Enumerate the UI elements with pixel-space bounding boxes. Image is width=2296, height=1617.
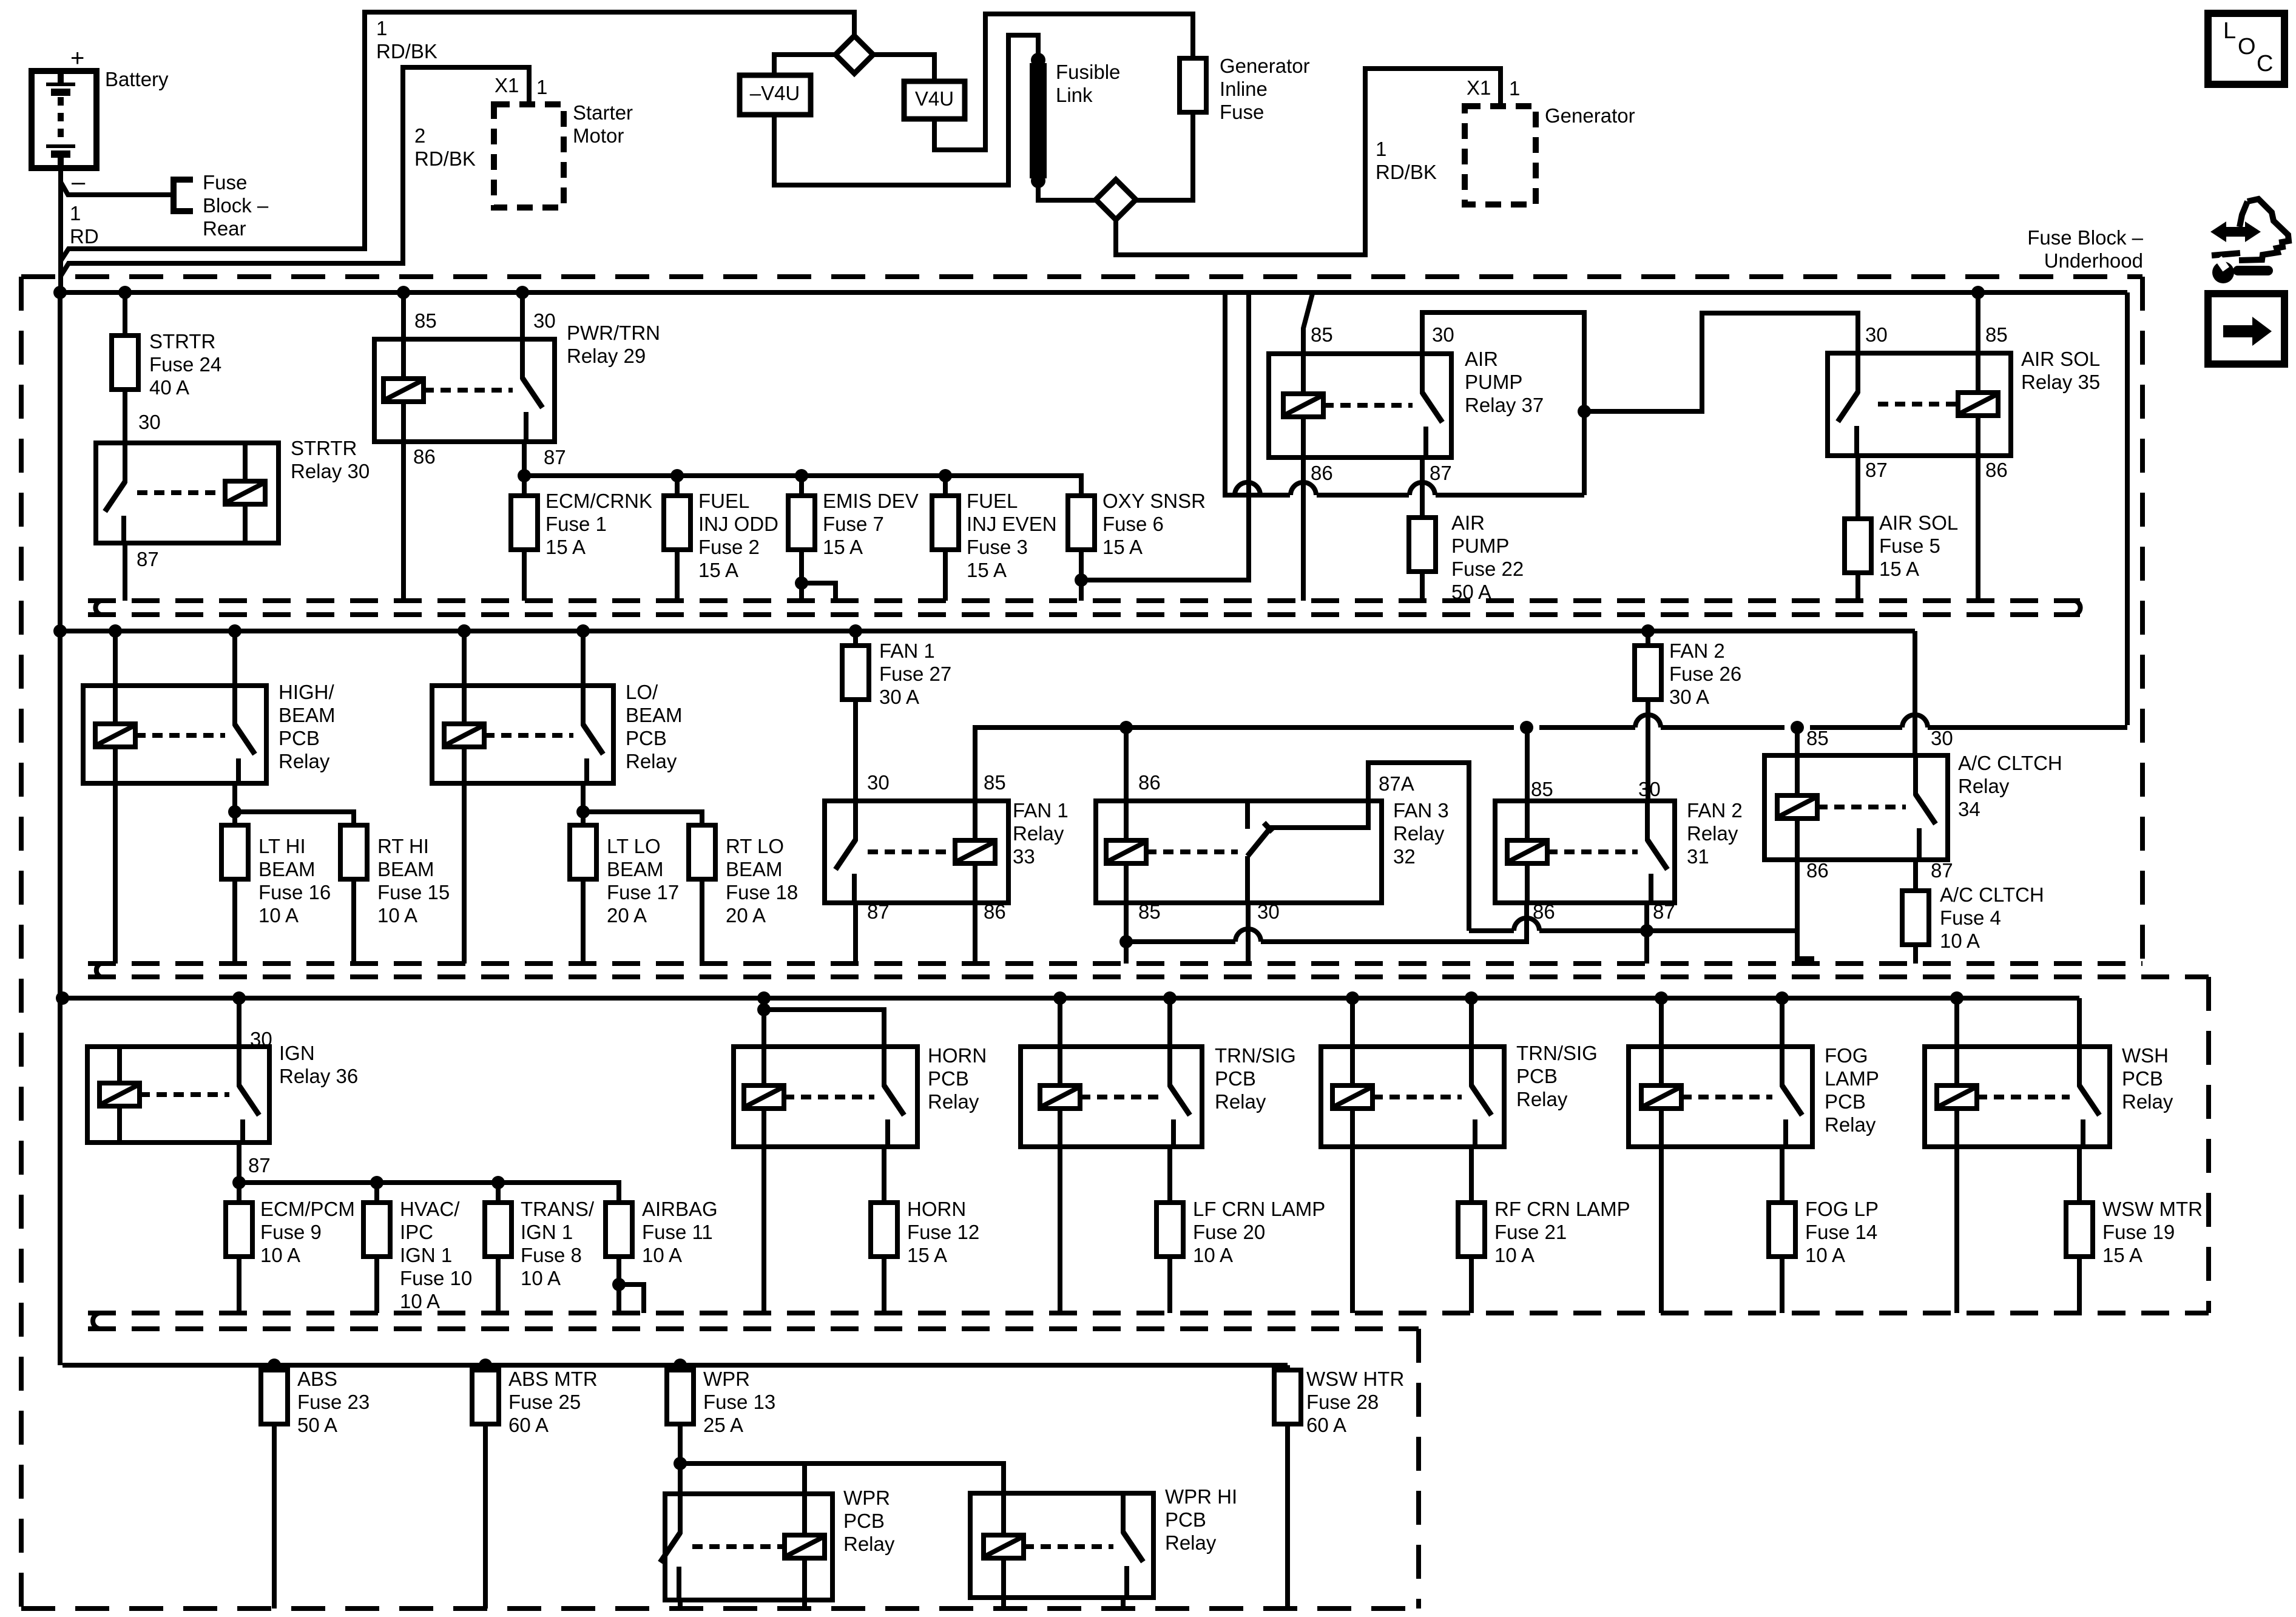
label relay37 pin86 (1311, 462, 1333, 484)
fuse F17 LT LO BEAM (570, 825, 596, 879)
relay R32 dashed link (1146, 849, 1238, 854)
wire fuse11 out jog (616, 1257, 621, 1313)
relay R35 dashed link (1878, 402, 1958, 407)
relay R37 AIR PUMP box (1269, 354, 1451, 457)
junction relay29 pin30 (516, 286, 529, 299)
battery (32, 71, 96, 168)
wire row3 feed line (239, 1183, 619, 1203)
label relay36 pin30 (250, 1028, 272, 1050)
label relay33 pin87 (867, 900, 890, 923)
wire wsh coil out (1954, 1147, 1959, 1313)
label TRN1 relay (1215, 1044, 1296, 1113)
svg-text:L: L (2223, 18, 2236, 44)
wire L2 a (1469, 928, 1514, 933)
relay R29 switch (522, 339, 542, 442)
wire fuse10 out (374, 1257, 379, 1313)
wire LB to fuse18 (583, 812, 702, 825)
underhood border top (21, 274, 2142, 279)
wire fuse5 out (1855, 573, 1860, 601)
label 1 starter (536, 76, 547, 98)
label relay36 (279, 1042, 358, 1087)
wire fuse18 out (700, 879, 704, 964)
wire bus1 drop 2019 (1225, 292, 1234, 495)
label relay34 (1958, 752, 2062, 820)
junction L2 relay31 87 (1640, 924, 1653, 937)
junction fuse3 feed (939, 469, 952, 482)
wire bus1 right drop (2125, 292, 2130, 725)
wire bus2 to fuse27 (853, 631, 858, 646)
svg-text:1: 1 (1509, 77, 1520, 100)
wire horn coil out (761, 1147, 766, 1313)
svg-text:30: 30 (867, 771, 890, 794)
wire bus3 end to wsh switch (2077, 998, 2082, 1047)
fuse F26 FAN2 (1635, 646, 1661, 700)
label relay29 (567, 322, 660, 367)
wire rail816 a (1234, 493, 1290, 498)
bus1 battery feed (60, 290, 2127, 295)
wire fuse28 out (1285, 1424, 1290, 1609)
relay HORN switch (884, 1047, 904, 1147)
junction fuse23 bus4 (268, 1359, 281, 1372)
battery - label (72, 169, 86, 195)
junction fog switch bus3 (1775, 991, 1789, 1005)
label relay33 pin85 (984, 771, 1006, 794)
wire relay34 pin85 down (1795, 727, 1800, 755)
relay LO BEAM dashed link (484, 733, 573, 738)
relay FOG dashed link (1681, 1095, 1772, 1099)
label relay37 pin85 (1311, 323, 1333, 346)
wire L1 a (1126, 939, 1235, 944)
label relay31 pin30 (1638, 778, 1661, 800)
wire 1 RD/BK riser (61, 12, 854, 261)
wire fuse15 out (351, 879, 356, 964)
junction relay32 pin86 on 1199 (1119, 721, 1133, 734)
wire relay36 pin87 to feed (237, 1143, 241, 1183)
label relay30 pin87 (137, 548, 159, 570)
label fuse13 (703, 1368, 775, 1436)
svg-text:86: 86 (1985, 459, 2008, 481)
junction fuse13 bus4 (674, 1359, 687, 1372)
junction wpr node (674, 1457, 687, 1470)
fuse F20 LF CRN LAMP (1156, 1203, 1183, 1257)
label relay34 pin30 (1931, 727, 1953, 749)
junction relay35 pin85 (1971, 286, 1985, 299)
relay R34 dashed link (1817, 805, 1906, 809)
battery + label (70, 45, 84, 72)
wire relay37 pin86 out (1301, 457, 1306, 601)
label relay29 pin85 (414, 309, 437, 332)
label HIGH BEAM relay (279, 681, 336, 772)
fuse F12 HORN (871, 1203, 897, 1257)
wire fog switch to fuse14 (1780, 1147, 1784, 1203)
relay TRN/SIG PCB 2 box (1321, 1047, 1504, 1147)
label fuse8 (521, 1198, 595, 1289)
label relay31 pin86 (1533, 900, 1555, 923)
relay LO BEAM switch (583, 686, 603, 783)
label fuse19 (2102, 1198, 2203, 1266)
label fuse7 (823, 490, 919, 558)
wire fuse14 out (1780, 1257, 1784, 1313)
wire S2 to generator (1116, 69, 1501, 255)
svg-text:85: 85 (1985, 323, 2008, 346)
label relay35 pin87 (1865, 459, 1888, 481)
label 2 RD/BK (414, 124, 476, 170)
svg-text:Fuse Block –: Fuse Block – (2027, 226, 2143, 249)
svg-text:86: 86 (1311, 462, 1333, 484)
svg-text:V4U: V4U (915, 87, 954, 110)
relay HORN coil (744, 1047, 784, 1147)
splice diamond S2 (1096, 180, 1136, 220)
fuse F9 ECM/PCM (226, 1203, 252, 1257)
junction fuse10 feed (370, 1176, 383, 1189)
label 1 generator (1509, 77, 1520, 100)
svg-text:85: 85 (1531, 778, 1553, 800)
label relay31 (1687, 799, 1743, 868)
junction fusible link top (1031, 53, 1045, 67)
battery label (105, 68, 169, 90)
relay TRN2 switch (1471, 1047, 1491, 1147)
wire fuse20 out (1167, 1257, 1172, 1313)
wire bus1 slant to relay37 85 (1303, 294, 1312, 354)
fuse F6 OXY SNSR (1068, 496, 1095, 550)
wire fuse3 drop (943, 476, 948, 496)
connector Fuse Block - Rear (174, 180, 193, 211)
svg-text:85: 85 (1806, 727, 1829, 749)
wire fuse6 out (1079, 550, 1084, 601)
svg-text:85: 85 (1311, 323, 1333, 346)
svg-text:Battery: Battery (105, 68, 169, 90)
wire L2 b (1539, 928, 1796, 933)
relay R31 switch (1647, 801, 1667, 903)
svg-text:87: 87 (1931, 859, 1953, 882)
relay WPR HI coil (984, 1493, 1024, 1598)
label fuse18 (726, 835, 798, 927)
relay TRN/SIG PCB 1 box (1021, 1047, 1202, 1147)
fuse F8 TRANS/IGN1 (485, 1203, 512, 1257)
relay R36 coil (100, 1047, 140, 1143)
svg-text:85: 85 (1138, 900, 1161, 923)
wire wpr hi coil feed (680, 1463, 1004, 1493)
label V4U (915, 87, 954, 110)
label relay33 pin86 (984, 900, 1006, 923)
junction trn1 coil bus3 (1053, 991, 1067, 1005)
wire bus2 to LB coil (462, 631, 467, 686)
relay TRN2 coil (1332, 1047, 1373, 1147)
relay R33 coil (955, 801, 995, 903)
connector V4U (904, 81, 965, 119)
label X1 generator (1467, 76, 1491, 99)
label fuse block rear (203, 171, 269, 240)
fuse F10 HVAC/IPC (363, 1203, 390, 1257)
junction relay36 bus3 (232, 991, 246, 1005)
wire bus3 to trn2 coil (1350, 998, 1355, 1047)
fuse F16 LT HI BEAM (221, 825, 248, 879)
icon LOC box (2208, 13, 2284, 84)
junction trn1 switch bus3 (1163, 991, 1177, 1005)
fuse F7 EMIS DEV (788, 496, 815, 550)
relay LO BEAM PCB box (432, 686, 613, 783)
svg-text:87: 87 (1653, 900, 1675, 923)
relay R36 switch (239, 1047, 259, 1143)
label 1 RD (70, 202, 99, 248)
wire fuse11 jog (619, 1284, 644, 1313)
fuse F4 AC CLTCH (1902, 891, 1929, 945)
label relay32 pin85 (1138, 900, 1161, 923)
junction fuse26 bus2 (1641, 624, 1655, 638)
wire relay34 pin86 out (1797, 860, 1812, 964)
relay R35 AIR SOL box (1828, 353, 2011, 456)
relay FOG coil (1641, 1047, 1681, 1147)
junction HB switch (228, 624, 241, 638)
section1/2 right curl (2075, 601, 2081, 615)
relay R35 coil (1958, 353, 1998, 456)
section2 bottom dashed (88, 961, 2142, 966)
svg-text:+: + (70, 45, 84, 72)
wire fuse feed line (524, 476, 1081, 496)
label WSH relay (2122, 1044, 2173, 1113)
wire fuse23 out (272, 1424, 277, 1609)
junction relay34 pin85 on 1199 (1791, 721, 1804, 734)
fuse F28 WSW HTR (1274, 1370, 1301, 1424)
section3/4 left curl (93, 1313, 101, 1329)
hop 1199 over relay34 pin30 wire (1902, 715, 1928, 727)
wire wpr coil out (802, 1600, 807, 1609)
underhood border right upper (2140, 277, 2145, 964)
svg-text:X1: X1 (495, 74, 519, 96)
junction bus2 left (53, 624, 67, 638)
hop L1 over relay32 pin30 (1235, 929, 1261, 942)
wire fuse4 out (1913, 945, 1918, 964)
fuse F24 STRTR (112, 336, 138, 390)
wire fuse8 drop (496, 1183, 501, 1203)
junction LB switch (576, 624, 590, 638)
wire 2 RD/BK (61, 67, 529, 276)
label fuse26 (1669, 640, 1741, 708)
label generator (1545, 104, 1635, 127)
wire bus1 to relay35 pin85 (1976, 292, 1980, 353)
label relay30 (291, 437, 370, 482)
wire bus3 to fog coil (1659, 998, 1664, 1047)
wire trn2 coil out (1350, 1147, 1355, 1313)
relay WPR HI dashed link (1024, 1544, 1113, 1549)
wire generator fuse to S2 (1136, 112, 1193, 200)
relay R32 switch (1248, 801, 1272, 903)
junction fuse7 jog (795, 576, 808, 590)
wire wsh switch to fuse19 (2077, 1147, 2082, 1203)
left vertical main (58, 292, 62, 1365)
wire fuse22 out (1420, 572, 1425, 601)
label fusible link (1056, 61, 1120, 106)
junction fuse7 feed (795, 469, 808, 482)
label generator inline fuse (1220, 55, 1310, 123)
wire fuse21 out (1469, 1257, 1474, 1313)
relay R30 dashed link (137, 490, 219, 495)
wire relay32 pin86 up (1124, 727, 1129, 801)
junction fuse27 bus2 (849, 624, 862, 638)
svg-text:30: 30 (1257, 900, 1280, 923)
wire HB switch to fuses (232, 783, 237, 825)
section2/3 left curl (96, 964, 101, 977)
fuse F11 AIRBAG (606, 1203, 632, 1257)
junction relay31 pin85 on 1199 (1520, 721, 1533, 734)
section3 bottom dashed (88, 1311, 2209, 1315)
svg-text:86: 86 (984, 900, 1006, 923)
relay TRN2 dashed link (1373, 1095, 1462, 1099)
junction feed87 (518, 469, 531, 482)
wire battery negative (61, 182, 174, 195)
wire fuse1 out (522, 550, 527, 601)
svg-text:Generator: Generator (1545, 104, 1635, 127)
wire bus3 to trn1 switch (1167, 998, 1172, 1047)
fuse F21 RF CRN LAMP (1458, 1203, 1485, 1257)
wire relay29 pin86 out (401, 442, 406, 601)
label fuse14 (1805, 1198, 1879, 1266)
junction relay29 pin85 (397, 286, 410, 299)
label fuse17 (607, 835, 679, 927)
wire wpr switch out (678, 1600, 683, 1609)
junction LB coil (458, 624, 471, 638)
junction horn branch (757, 1003, 771, 1016)
relay WSH PCB box (1925, 1047, 2110, 1147)
junction horn bus3 (757, 991, 771, 1005)
relay WSH switch (2079, 1047, 2099, 1147)
junction bus1 left (53, 286, 67, 299)
label relay32 pin86 (1138, 771, 1161, 794)
svg-text:85: 85 (984, 771, 1006, 794)
wire -V4U to fusible link (774, 35, 1038, 185)
label TRN2 relay (1516, 1042, 1598, 1110)
relay WSH dashed link (1977, 1095, 2070, 1099)
label fuse21 (1494, 1198, 1630, 1266)
wire fuse9 drop (237, 1183, 241, 1203)
relay R32 87A path (1268, 763, 1469, 931)
wire battery to bus1 (58, 168, 63, 295)
svg-text:AIR SOLRelay 35: AIR SOLRelay 35 (2021, 348, 2100, 393)
label fuse16 (258, 835, 331, 927)
wire bus4 end to fuse28 (1285, 1365, 1290, 1370)
wire wpr hi coil out (1001, 1598, 1006, 1609)
wire bus2 to fuse26 (1646, 631, 1650, 646)
relay WPR PCB box (665, 1494, 832, 1600)
wire wpr coil stub (802, 1463, 807, 1494)
section4 top dashed (88, 1326, 1419, 1331)
relay R29 dashed link (424, 388, 513, 393)
wire coil feed line 1199 c (1539, 725, 1635, 730)
relay HIGH BEAM PCB box (83, 686, 266, 783)
wire relay34 pin87 to fuse4 (1913, 860, 1918, 891)
wire relay32 pin85 out (1124, 903, 1129, 964)
section3 top dashed (88, 974, 2209, 979)
label relay32 (1393, 799, 1449, 868)
svg-text:87: 87 (137, 548, 159, 570)
relay WPR HI switch (1123, 1493, 1143, 1598)
svg-text:86: 86 (413, 445, 436, 468)
bus2 (60, 629, 1915, 633)
wire relay31 pin87 out (1644, 903, 1649, 964)
wire relay29 pin87 to feed (522, 442, 527, 476)
relay TRN1 switch (1170, 1047, 1190, 1147)
wire LB coil out (462, 783, 467, 964)
wire fuse7 out jog (802, 550, 836, 601)
svg-text:86: 86 (1806, 859, 1829, 882)
fuse generator inline (1180, 58, 1206, 112)
wire bus3 to trn1 coil (1058, 998, 1062, 1047)
relay R33 switch (836, 801, 856, 903)
wire rail816 end (1571, 493, 1584, 498)
section2 top dashed (88, 612, 2080, 617)
label 1 RD/BK (left) (376, 17, 437, 62)
wire relay32 pin30 out (1246, 903, 1251, 964)
relay R34 switch (1916, 755, 1936, 860)
label relay34 pin86 (1806, 859, 1829, 882)
label fuse3 (967, 490, 1057, 581)
wire bus2 to HB coil (113, 631, 118, 686)
hop rail816 over 2058 (1235, 482, 1260, 495)
wire bus3 to wsh coil (1954, 998, 1959, 1047)
label relay31 pin85 (1531, 778, 1553, 800)
svg-text:C: C (2257, 51, 2273, 76)
wire bus1 to fuse24 (123, 292, 127, 336)
label fuse12 (907, 1198, 979, 1266)
relay WPR coil (785, 1494, 825, 1600)
relay R37 dashed link (1323, 403, 1413, 408)
junction HB fuse node (228, 805, 241, 819)
label fuse6 (1102, 490, 1206, 558)
wire trn2 switch to fuse21 (1469, 1147, 1474, 1203)
label relay32 87A (1379, 772, 1414, 795)
wire fuse3 out (943, 550, 948, 601)
junction fuse8 feed (491, 1176, 505, 1189)
hop rail816 over 2148 (1291, 482, 1316, 495)
junction wsh coil bus3 (1950, 991, 1963, 1005)
wire fog coil out (1659, 1147, 1664, 1313)
wire fuse6 node to bus1 (1081, 292, 1249, 580)
wire coil feed line 1199 e (1810, 725, 1902, 730)
wire fusible link to S2 (1038, 181, 1096, 200)
wire relay31 pin85 down (1525, 727, 1530, 801)
wire coil feed line 1199 a (975, 727, 1113, 801)
label relay31 pin87 (1653, 900, 1675, 923)
wire bus2 to HB switch (232, 631, 237, 686)
svg-text:–: – (72, 169, 86, 195)
label fuse9 (260, 1198, 355, 1266)
svg-text:30: 30 (1865, 323, 1888, 346)
relay R36 IGN box (87, 1047, 269, 1143)
label fuse block underhood (2027, 226, 2143, 272)
label X1 starter (495, 74, 519, 96)
wire rail816 b (1317, 493, 1409, 498)
bus3 (62, 996, 2079, 1001)
connector -V4U (740, 75, 811, 115)
label fuse4 (1940, 883, 2044, 952)
junction fuse6 node (1075, 573, 1088, 587)
label fuse27 (879, 640, 951, 708)
relay R36 dashed link (140, 1092, 229, 1097)
junction trn2 coil bus3 (1346, 991, 1359, 1005)
wire relay35 pin87 to fuse5 (1855, 456, 1860, 519)
label fuse20 (1193, 1198, 1325, 1266)
hop L2 over relay31 pin86 (1514, 918, 1539, 931)
label relay30 pin30 (138, 411, 161, 433)
section1/2 left curl (95, 601, 101, 615)
wire node to relay35 pin30 (1584, 313, 1858, 411)
wire fuse25 out (483, 1424, 488, 1609)
relay R32 coil (1106, 801, 1146, 903)
wire fuse1 drop (522, 476, 527, 496)
relay FOG LAMP PCB box (1629, 1047, 1812, 1147)
wire fuse7 drop (799, 476, 804, 496)
relay WPR dashed link (692, 1544, 785, 1549)
